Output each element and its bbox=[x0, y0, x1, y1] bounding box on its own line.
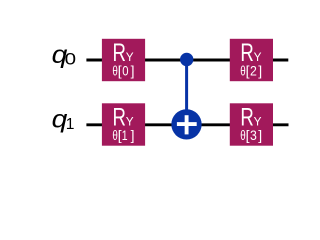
svg-text:]: ] bbox=[131, 62, 135, 78]
svg-text:1: 1 bbox=[66, 116, 75, 133]
svg-text:[: [ bbox=[246, 127, 250, 143]
svg-text:3: 3 bbox=[250, 127, 257, 143]
svg-text:]: ] bbox=[258, 62, 262, 78]
svg-text:]: ] bbox=[131, 127, 135, 143]
svg-text:[: [ bbox=[246, 62, 250, 78]
svg-text:1: 1 bbox=[122, 127, 128, 143]
svg-text:]: ] bbox=[258, 127, 262, 143]
svg-text:0: 0 bbox=[65, 50, 76, 68]
svg-text:[: [ bbox=[118, 62, 122, 78]
svg-text:0: 0 bbox=[122, 62, 128, 78]
svg-text:2: 2 bbox=[250, 63, 257, 79]
